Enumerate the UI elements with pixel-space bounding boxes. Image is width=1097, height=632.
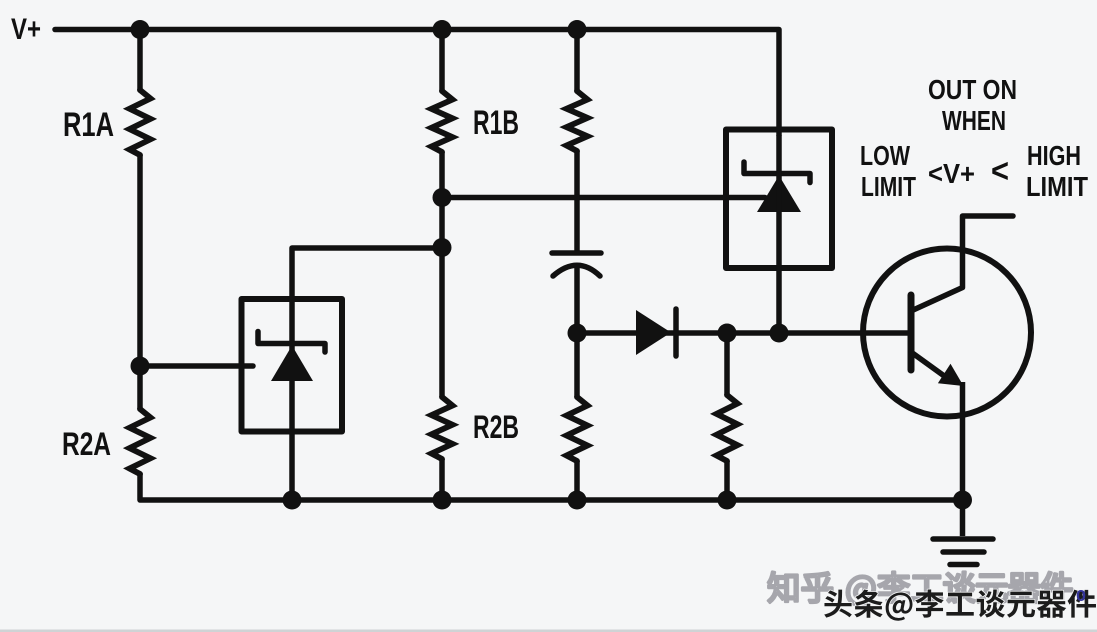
ground symbol bbox=[933, 539, 993, 565]
svg-text:R2A: R2A bbox=[62, 426, 111, 462]
resistor R2B bbox=[432, 397, 453, 459]
wire: R1A bottom to R2A top bbox=[137, 155, 143, 409]
junction: ground rail / resistor bbox=[718, 491, 737, 510]
bottom edge strip bbox=[0, 630, 1097, 632]
watermark (gray outline): zhihu @ligongtanyuanqijian bbox=[768, 572, 1072, 606]
wire: R1A/R2A tap to U1 reference pin bbox=[140, 363, 253, 369]
junction: V+ rail / upper resistor bbox=[568, 20, 587, 39]
svg-text:R1A: R1A bbox=[63, 106, 114, 144]
wire: cap bottom to diode node bbox=[574, 266, 580, 397]
Q1 collector lead up to output bbox=[911, 216, 1013, 311]
svg-text:R1B: R1B bbox=[473, 104, 519, 142]
shunt reference U2 (TL431, boxed) bbox=[726, 130, 832, 269]
svg-text:<: < bbox=[991, 152, 1009, 189]
svg-text:HIGH: HIGH bbox=[1027, 140, 1081, 171]
wire: vertical branch R1A at x=140 bbox=[137, 30, 143, 91]
capacitor C1 curved bottom plate bbox=[553, 265, 600, 276]
U2 zener triangle bbox=[757, 176, 801, 213]
svg-text:LIMIT: LIMIT bbox=[1026, 171, 1088, 202]
transistor Q1 (NPN) circle bbox=[863, 249, 1031, 417]
resistor (upper, unlabeled) at x=577 bbox=[567, 91, 588, 151]
svg-text:R2B: R2B bbox=[473, 409, 519, 445]
svg-text:0: 0 bbox=[1076, 588, 1086, 605]
svg-text:WHEN: WHEN bbox=[942, 105, 1006, 136]
diode D1 cathode bar bbox=[673, 309, 679, 356]
wire: node R1B bottom to U2 reference pin bbox=[442, 195, 765, 201]
junction: V+ rail / R1B bbox=[433, 20, 452, 39]
wire: vertical branch R1B/R2B at x=442 bbox=[439, 30, 445, 92]
junction: ground rail / R2B bbox=[433, 491, 452, 510]
junction: R1B bottom to U2 ref bbox=[433, 188, 452, 207]
resistor R1B bbox=[432, 91, 453, 152]
junction: U2 anode node bbox=[770, 324, 789, 343]
junction: ground rail / Q1 emitter bbox=[953, 491, 972, 510]
Q1 emitter arrowhead bbox=[938, 364, 964, 386]
svg-text:OUT ON: OUT ON bbox=[928, 74, 1017, 105]
junction: R1A-R2A tap to U1 ref bbox=[131, 357, 150, 376]
wire: Q1 emitter to ground bbox=[960, 382, 966, 536]
diode D1 triangle bbox=[636, 310, 671, 355]
wire: vertical branch at x=727 bbox=[724, 333, 730, 395]
Q1 base bar bbox=[908, 295, 915, 370]
svg-text:<V+: <V+ bbox=[928, 158, 975, 189]
watermark (black): toutiao @ligongtanyuanqijian bbox=[824, 589, 1096, 620]
resistor (lower, unlabeled) at x=577 bbox=[567, 397, 588, 461]
junction: V+ rail / R1A bbox=[131, 20, 150, 39]
svg-text:V+: V+ bbox=[11, 13, 41, 46]
resistor R1A bbox=[130, 90, 151, 155]
junction: diode cathode / pull-down bbox=[718, 324, 737, 343]
wire: vertical branch at x=577 bbox=[574, 30, 580, 92]
U1 zener triangle bbox=[271, 346, 313, 382]
U1 cathode bar with hooks bbox=[258, 332, 325, 353]
shunt reference U1 (TL431, boxed) bbox=[242, 299, 343, 432]
junction: ground rail / U1 anode bbox=[283, 491, 302, 510]
wire: V+ top rail with corner down to U2 bbox=[55, 30, 779, 136]
capacitor C1 top plate bbox=[552, 250, 601, 256]
svg-text:LOW: LOW bbox=[860, 140, 910, 171]
junction: U1 cathode node bbox=[433, 238, 452, 257]
wire: output node rail to Q1 base bbox=[577, 330, 908, 336]
junction: ground rail / resistor bbox=[568, 491, 587, 510]
Q1 emitter lead bbox=[911, 352, 947, 378]
wire: U1 cathode up and over to x=442 node bbox=[292, 248, 442, 500]
svg-text:LIMIT: LIMIT bbox=[861, 171, 916, 202]
junction: cap/diode anode node bbox=[568, 324, 587, 343]
wire: bottom rail bbox=[140, 474, 963, 500]
resistor R2A bbox=[130, 409, 151, 474]
U2 cathode bar with hooks bbox=[744, 162, 810, 183]
resistor (lower, unlabeled) at x=727 bbox=[717, 395, 738, 461]
wire: U2 cathode through-line bbox=[776, 135, 782, 333]
